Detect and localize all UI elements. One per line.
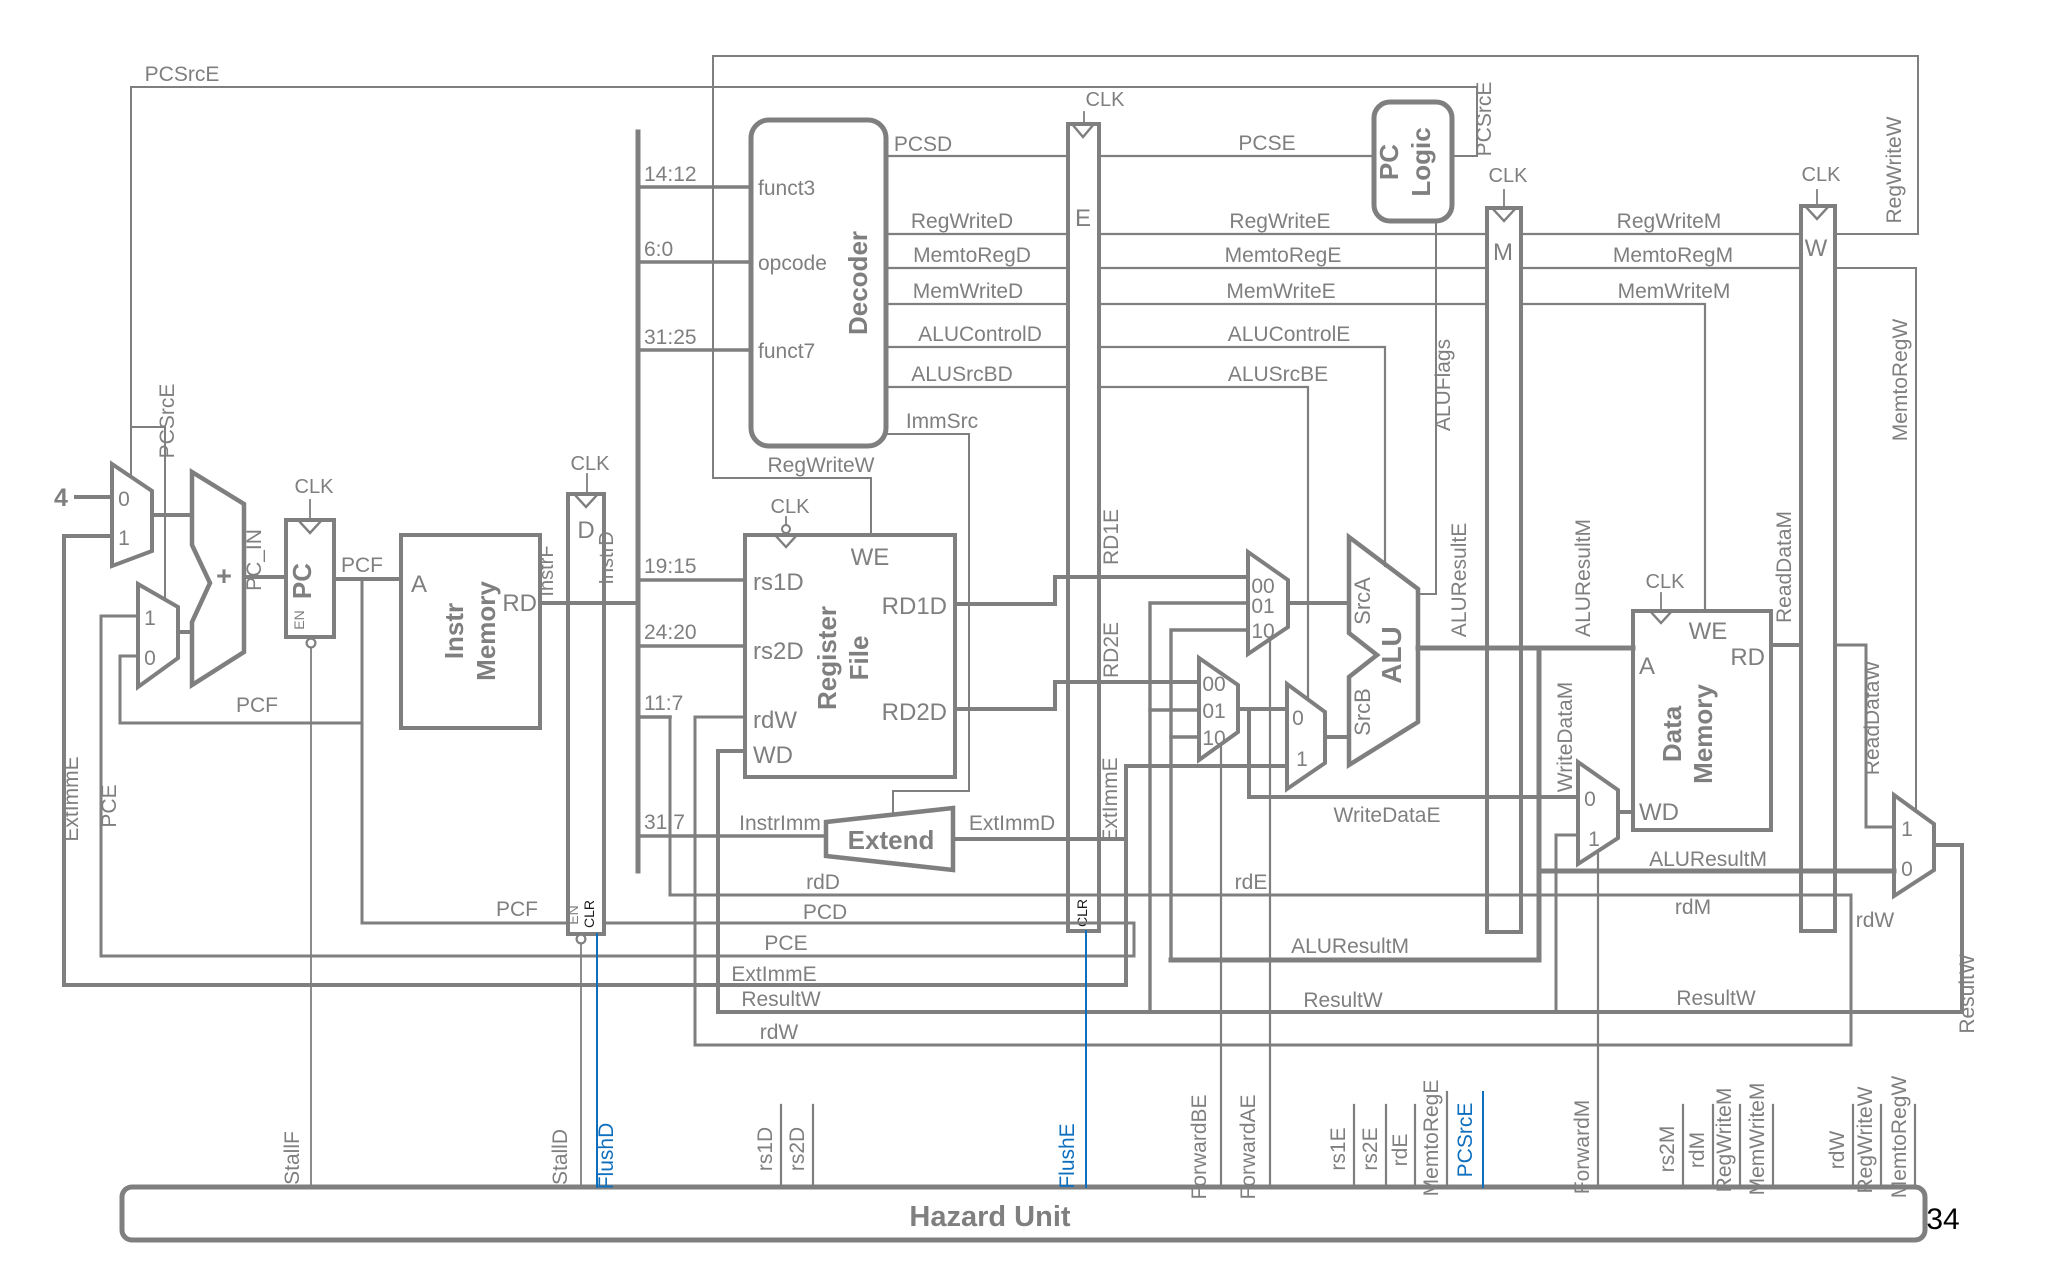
svg-text:1: 1 [1296,748,1308,771]
svg-text:InstrImm: InstrImm [739,812,821,835]
wire ExtImmE return [64,536,1126,985]
svg-text:E: E [1075,205,1091,232]
svg-text:CLK: CLK [1489,165,1529,187]
svg-text:19:15: 19:15 [644,555,697,578]
svg-text:ALUResultE: ALUResultE [1448,523,1471,637]
bus tap rs2D 24:20 [638,644,745,648]
wire RegWriteW stub [1880,1105,1882,1187]
svg-text:RegWriteW: RegWriteW [768,454,875,477]
svg-text:rdE: rdE [1235,871,1268,894]
bus tap rs1D 19:15 [638,578,745,582]
svg-text:Register: Register [812,606,842,710]
svg-text:ExtImmE: ExtImmE [1099,757,1122,842]
clock wedge PC [298,520,322,533]
svg-text:PCSD: PCSD [894,133,952,156]
wire MemtoRegW select [1835,268,1916,808]
wire FlushE [1085,931,1087,1187]
wire forward ALUResultM to muxes [1171,630,1248,960]
svg-text:01: 01 [1202,700,1225,723]
svg-text:CLK: CLK [1802,164,1842,186]
svg-text:funct7: funct7 [758,340,815,363]
svg-text:10: 10 [1202,727,1225,750]
svg-text:rs2D: rs2D [786,1127,809,1171]
svg-text:Instr: Instr [439,603,469,659]
wire ALUControlD [886,346,1068,348]
svg-text:CLR: CLR [581,900,597,928]
PC logic [1374,102,1452,221]
mux SrcB imm [1287,684,1325,789]
wire PCF to instr memory [334,577,401,581]
svg-text:RegWriteM: RegWriteM [1713,1088,1736,1193]
wire rs2E stub [1385,1105,1387,1187]
svg-text:14:12: 14:12 [644,163,697,186]
wire PCF return to mux [120,656,362,723]
svg-text:RegWriteD: RegWriteD [911,210,1013,233]
mux write data M [1578,762,1618,864]
data memory [1633,611,1771,830]
pipeline register D [568,494,604,934]
wire SrcA mux out [1288,601,1349,605]
hazard unit [122,1187,1925,1240]
wire RegWriteM stub [1739,1105,1741,1187]
register file [745,535,955,777]
wire PC_IN [244,575,286,579]
wire rdE stub [1414,1105,1416,1187]
register PC [286,520,334,637]
wire ALUFlags [1418,221,1436,594]
svg-text:ALUResultM: ALUResultM [1291,935,1409,958]
svg-text:RegWriteW: RegWriteW [1854,1086,1877,1193]
svg-text:6:0: 6:0 [644,238,673,261]
svg-text:opcode: opcode [758,252,827,275]
svg-text:RD1E: RD1E [1100,509,1123,565]
bus tap imm 31:7 [638,834,826,838]
svg-text:Logic: Logic [1406,127,1436,196]
svg-text:PCF: PCF [236,694,278,717]
ALU [1349,537,1418,765]
svg-text:rs2E: rs2E [1359,1127,1382,1170]
svg-text:PCF: PCF [341,554,383,577]
svg-text:10: 10 [1251,620,1274,643]
wire SrcB mux2 out [1325,735,1349,739]
svg-text:InstrF: InstrF [536,545,558,596]
svg-text:A: A [1639,653,1655,680]
pipeline register M [1487,208,1521,932]
svg-text:StallD: StallD [549,1129,572,1185]
mux SrcA forward [1248,552,1288,654]
svg-text:MemtoRegE: MemtoRegE [1420,1080,1443,1197]
wire ForwardM [1597,854,1599,1187]
svg-text:ResultW: ResultW [1956,954,1979,1034]
svg-text:MemtoRegE: MemtoRegE [1225,244,1342,267]
mux SrcB forward [1199,658,1238,760]
svg-text:rdE: rdE [1389,1134,1412,1167]
svg-text:FlushD: FlushD [595,1123,618,1190]
wire RD1D [955,577,1248,604]
svg-text:rs2M: rs2M [1656,1126,1679,1173]
wire ReadDataM [1771,643,1801,647]
wire RD2D [955,682,1199,709]
wire ALUSrcBD [886,386,1068,388]
svg-text:RegWriteW: RegWriteW [1883,116,1906,223]
svg-text:D: D [577,517,594,544]
svg-text:ALU: ALU [1376,626,1407,684]
wire MemtoRegE [1099,267,1487,269]
svg-text:ImmSrc: ImmSrc [906,410,978,433]
decoder [751,120,886,446]
svg-text:rdM: rdM [1675,896,1711,919]
bus tap opcode 6:0 [638,260,751,264]
svg-text:rdW: rdW [753,707,797,734]
wire WD mux out [1618,810,1633,814]
svg-text:11:7: 11:7 [644,692,683,715]
enable bubble D [577,935,586,944]
svg-text:WE: WE [1689,618,1728,645]
wire MemtoRegW stub [1914,1105,1916,1187]
svg-text:MemWriteM: MemWriteM [1618,280,1731,303]
svg-text:FlushE: FlushE [1056,1123,1079,1188]
svg-text:PCD: PCD [803,901,847,924]
svg-text:ALUSrcBD: ALUSrcBD [911,363,1013,386]
svg-text:MemtoRegW: MemtoRegW [1888,1076,1911,1199]
wire PCSE [1099,155,1374,157]
svg-text:RD: RD [1730,644,1765,671]
wire MemWriteM [1521,304,1705,611]
wire ALUSrcBE [1099,387,1308,698]
svg-text:PCSrcE: PCSrcE [1473,82,1496,157]
svg-text:ResultW: ResultW [1676,987,1756,1010]
svg-text:31:25: 31:25 [644,326,697,349]
svg-text:1: 1 [1588,828,1600,851]
clock wedge data memory [1650,611,1672,623]
wire ForwardAE [1269,639,1271,1187]
wire ALUResultM branch [1171,648,1539,960]
pipeline register E [1068,124,1099,931]
bus tap funct7 31:25 [638,348,751,352]
wire forward ResultW to muxes [1150,603,1248,1012]
wire rs2D stub [812,1105,814,1187]
svg-text:MemWriteM: MemWriteM [1746,1083,1769,1196]
wire PCSrcE loop [131,87,1477,476]
svg-text:EN: EN [291,610,307,629]
svg-text:PCE: PCE [98,784,121,827]
svg-text:4: 4 [54,484,68,512]
svg-text:CLK: CLK [571,453,611,475]
enable bubble PC [307,639,316,648]
svg-text:Decoder: Decoder [843,231,873,335]
svg-text:rdW: rdW [760,1021,799,1044]
svg-text:ALUResultM: ALUResultM [1572,519,1595,637]
svg-text:ExtImmE: ExtImmE [60,756,83,841]
wire ALUResultM to result mux [1539,869,1894,874]
svg-text:24:20: 24:20 [644,621,697,644]
mux PC base src [138,584,178,687]
wire forward ResultW to WD mux [1556,835,1578,1012]
wire ExtImmD [953,766,1287,839]
svg-text:PC_IN: PC_IN [243,529,266,591]
svg-text:WriteDataE: WriteDataE [1334,804,1441,827]
svg-text:SrcB: SrcB [1350,688,1375,736]
wire RegWriteW loop [713,56,1918,535]
svg-text:rs1D: rs1D [754,1127,777,1171]
svg-text:0: 0 [1901,858,1913,881]
bus tap rd 11:7 [638,715,670,719]
svg-text:31:7: 31:7 [644,811,685,834]
svg-text:ExtImmE: ExtImmE [731,963,816,986]
svg-text:CLK: CLK [1086,89,1126,111]
svg-text:RegWriteE: RegWriteE [1229,210,1330,233]
wire MemtoRegE stub [1446,1092,1448,1187]
wire MemWriteM stub [1772,1105,1774,1187]
svg-text:0: 0 [1584,788,1596,811]
wire SrcB mux1 out [1238,707,1287,711]
svg-text:WD: WD [1639,799,1679,826]
svg-text:File: File [844,636,874,681]
wire FlushD [596,934,598,1187]
svg-text:ForwardBE: ForwardBE [1188,1094,1211,1199]
svg-text:CLK: CLK [771,496,811,518]
svg-text:ALUSrcBE: ALUSrcBE [1228,363,1328,386]
svg-text:RD1D: RD1D [882,593,947,620]
svg-text:0: 0 [118,488,130,511]
svg-text:ForwardM: ForwardM [1571,1100,1594,1195]
pipeline register W [1801,206,1835,931]
svg-text:RD: RD [502,590,537,617]
wire RegWriteD [886,233,1068,235]
wire MemtoRegM [1521,267,1801,269]
clock wedge E [1072,124,1094,137]
svg-text:01: 01 [1251,595,1274,618]
svg-text:rdM: rdM [1686,1132,1709,1168]
wire RegWriteM [1521,233,1801,235]
svg-text:ResultW: ResultW [741,988,821,1011]
clock wedge D [574,494,598,507]
instruction memory [401,535,540,728]
wire ImmSrc [886,434,969,814]
wire PCF down to D [362,579,568,923]
svg-text:W: W [1805,235,1828,262]
extend unit [826,808,953,870]
svg-text:rdW: rdW [1856,909,1895,932]
svg-text:1: 1 [144,607,156,630]
svg-text:Data: Data [1657,705,1687,762]
svg-text:rs1E: rs1E [1327,1127,1350,1170]
wire MemWriteE [1099,303,1487,305]
wire rdM stub [1712,1105,1714,1187]
svg-text:PCE: PCE [764,932,807,955]
svg-text:StallF: StallF [281,1131,304,1185]
mux result W [1894,795,1934,896]
wire mux to adder bottom [178,630,192,634]
svg-text:funct3: funct3 [758,177,815,200]
svg-text:MemWriteD: MemWriteD [913,280,1023,303]
wire ALUControlE [1099,347,1385,566]
wire rs1E stub [1353,1105,1355,1187]
clock bubble register file [785,517,787,524]
svg-text:PCSrcE: PCSrcE [145,63,220,86]
svg-text:MemtoRegW: MemtoRegW [1889,319,1912,442]
svg-text:rs2D: rs2D [753,638,804,665]
svg-text:Extend: Extend [848,825,935,855]
wire ReadDataW [1835,645,1894,827]
wire PCD [101,616,1134,956]
bus tap funct3 14:12 [638,185,751,189]
wire RegWriteE [1099,233,1487,235]
svg-text:rdD: rdD [806,871,840,894]
svg-text:ALUFlags: ALUFlags [1432,339,1455,431]
svg-text:ALUControlE: ALUControlE [1228,323,1351,346]
svg-text:InstrD: InstrD [596,531,618,584]
svg-text:00: 00 [1202,673,1225,696]
svg-text:MemtoRegM: MemtoRegM [1613,244,1733,267]
wire ALUResultE [1418,646,1633,651]
svg-text:PCSrcE: PCSrcE [156,384,179,459]
svg-text:Hazard Unit: Hazard Unit [909,1201,1070,1233]
wire MemtoRegD [886,267,1068,269]
wire ForwardBE [1220,746,1222,1187]
svg-text:RD2E: RD2E [1100,622,1123,678]
svg-text:1: 1 [118,527,130,550]
wire PCSD [886,155,1068,157]
svg-text:PCSE: PCSE [1238,132,1295,155]
mux PCPlus4 src [112,464,152,566]
svg-text:WE: WE [851,544,890,571]
svg-text:0: 0 [1292,707,1304,730]
svg-text:+: + [216,561,232,591]
wire InstrF [540,601,638,605]
wire rs2M stub [1682,1105,1684,1187]
svg-text:RegWriteM: RegWriteM [1617,210,1722,233]
svg-text:MemtoRegD: MemtoRegD [913,244,1031,267]
svg-text:ExtImmD: ExtImmD [969,812,1055,835]
instruction bus [636,132,641,871]
svg-text:WD: WD [753,742,793,769]
svg-text:0: 0 [144,647,156,670]
svg-text:ResultW: ResultW [1303,989,1383,1012]
svg-text:M: M [1493,239,1513,266]
svg-text:ForwardAE: ForwardAE [1237,1094,1260,1199]
wire WriteDataE [1249,709,1578,797]
svg-text:WriteDataM: WriteDataM [1554,682,1577,792]
wire rs1D stub [780,1105,782,1187]
wire PCSrcE stub [1482,1092,1484,1187]
svg-text:rdW: rdW [1826,1131,1849,1170]
svg-text:MemWriteE: MemWriteE [1226,280,1335,303]
svg-text:CLK: CLK [295,476,335,498]
constant 4 input [76,495,112,499]
adder PC [192,472,244,685]
svg-text:Memory: Memory [1688,684,1718,784]
svg-text:A: A [411,571,427,598]
svg-text:SrcA: SrcA [1350,577,1375,625]
svg-text:ReadDataW: ReadDataW [1861,661,1884,776]
wire ResultW [718,751,1962,1012]
svg-text:PCSrcE: PCSrcE [1454,1103,1477,1178]
wire rdD [670,717,1851,1045]
svg-text:RD2D: RD2D [882,699,947,726]
svg-text:Memory: Memory [471,581,501,681]
wire rdW stub [1852,1105,1854,1187]
svg-text:PC: PC [287,563,317,599]
wire MemWriteD [886,303,1068,305]
svg-text:ReadDataM: ReadDataM [1773,511,1796,623]
clock wedge M [1492,208,1516,221]
svg-text:34: 34 [1926,1203,1959,1236]
svg-text:CLK: CLK [1646,571,1686,593]
wire mux to adder top [152,513,192,517]
svg-text:ALUResultM: ALUResultM [1649,848,1767,871]
clock wedge W [1805,206,1829,219]
svg-text:1: 1 [1901,818,1913,841]
svg-text:rs1D: rs1D [753,569,804,596]
svg-text:PCF: PCF [496,898,538,921]
svg-text:ALUControlD: ALUControlD [918,323,1042,346]
svg-text:PC: PC [1374,144,1404,180]
